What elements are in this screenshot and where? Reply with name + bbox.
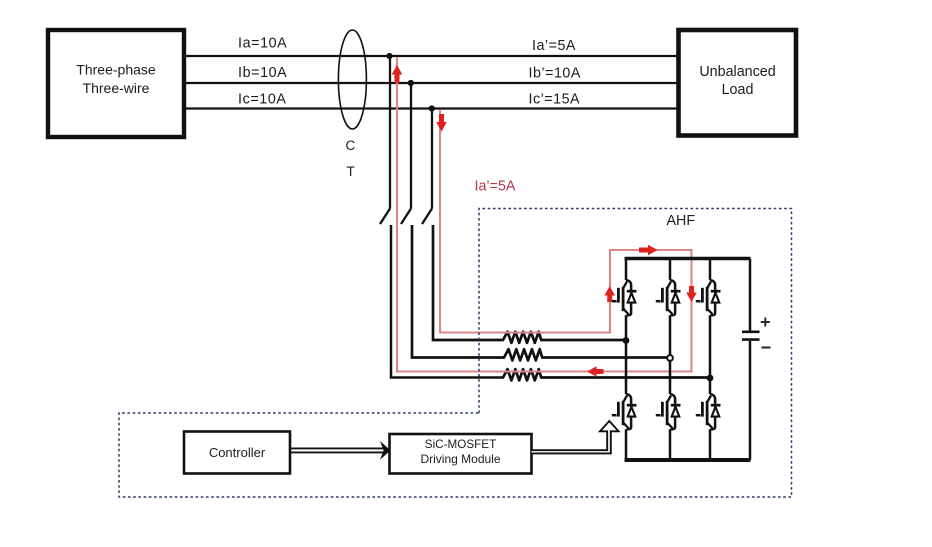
- node leg1 midpoint: [623, 337, 630, 344]
- wire: phase a tap drop: [389, 56, 391, 209]
- dc bottom bus: [625, 458, 751, 462]
- red arrow down right leg: [686, 286, 697, 302]
- wire capacitor to bottom bus: [749, 341, 752, 460]
- IGBT Q3 (top leg3): [696, 280, 721, 315]
- red compensation path: [397, 57, 692, 372]
- leg2 lower: [669, 429, 672, 460]
- switch blade phase b: [401, 209, 411, 225]
- svg-text:SiC-MOSFET: SiC-MOSFET: [425, 438, 496, 451]
- red arrow down from wire c: [436, 114, 447, 132]
- inductor Lc: [503, 332, 541, 343]
- wire: phase b to filter: [412, 225, 504, 358]
- load box: Unbalanced Load: [679, 30, 797, 136]
- source box: Three-phase Three-wire: [48, 30, 184, 137]
- red arrow up into wire a: [392, 65, 403, 83]
- label -: [762, 347, 771, 349]
- IGBT Q2 (top leg2): [656, 280, 681, 315]
- node leg2 midpoint (open): [667, 355, 673, 361]
- switch blade phase a: [380, 209, 390, 225]
- svg-text:Ic=10A: Ic=10A: [238, 92, 287, 108]
- svg-text:AHF: AHF: [667, 213, 696, 229]
- svg-text:Three-wire: Three-wire: [83, 80, 150, 96]
- dc link wire to capacitor: [749, 259, 752, 331]
- svg-text:Ic’=15A: Ic’=15A: [529, 92, 581, 108]
- svg-text:Controller: Controller: [209, 445, 266, 460]
- leg1 lower: [625, 429, 628, 460]
- switch blade phase c: [422, 209, 432, 225]
- wire: phase a to filter: [391, 225, 503, 378]
- leg3 middle: [709, 315, 712, 394]
- svg-text:Unbalanced: Unbalanced: [699, 64, 775, 80]
- svg-text:C: C: [346, 138, 356, 153]
- leg3 upper: [709, 259, 712, 281]
- node on wire c: [429, 105, 435, 111]
- wire: Lb to leg2 midpoint: [542, 356, 670, 359]
- capacitor C1: [742, 332, 760, 340]
- wire: phase c to filter: [433, 225, 503, 340]
- node on wire b: [408, 80, 414, 86]
- red arrow up left leg: [604, 286, 615, 302]
- svg-text:Ib’=10A: Ib’=10A: [529, 66, 581, 82]
- svg-text:Driving Module: Driving Module: [420, 452, 500, 466]
- IGBT Q1 (top leg1): [612, 280, 637, 315]
- leg3 lower: [709, 429, 712, 460]
- wire: phase b tap drop: [410, 83, 412, 209]
- inductor Lb: [504, 349, 542, 360]
- wire: La to leg3 midpoint: [541, 376, 710, 379]
- node on wire a: [386, 53, 392, 59]
- CT ellipse: [338, 30, 366, 129]
- double-line arrow controller to module: [290, 441, 391, 460]
- red arrow left bottom row: [587, 366, 604, 377]
- red arrow right top bus: [639, 245, 658, 256]
- wire: phase c tap drop: [431, 109, 433, 209]
- label +: [761, 318, 770, 327]
- leg2 middle: [669, 315, 672, 394]
- leg2 upper: [669, 259, 672, 281]
- wire phase b: [186, 82, 677, 84]
- wire phase c: [186, 107, 677, 109]
- svg-text:Ia’=5A: Ia’=5A: [532, 38, 576, 54]
- svg-text:Three-phase: Three-phase: [76, 61, 156, 77]
- IGBT Q6 (bottom leg3): [696, 394, 721, 429]
- svg-text:Ia=10A: Ia=10A: [238, 36, 287, 52]
- wire phase a: [186, 55, 677, 57]
- IGBT Q4 (bottom leg1): [612, 394, 637, 429]
- driving module box: [390, 434, 532, 474]
- leg1 upper: [625, 259, 628, 281]
- node leg3 midpoint: [707, 375, 714, 382]
- svg-text:Load: Load: [722, 82, 754, 98]
- svg-text:Ib=10A: Ib=10A: [238, 65, 287, 81]
- leg1 middle: [625, 315, 628, 394]
- svg-text:Ia’=5A: Ia’=5A: [475, 179, 516, 195]
- controller box: [184, 432, 290, 474]
- inductor La: [503, 369, 541, 380]
- wire: Lc to leg1 midpoint: [541, 339, 626, 342]
- svg-text:T: T: [347, 164, 355, 179]
- AHF dashed boundary: [119, 209, 792, 498]
- IGBT Q5 (bottom leg2): [656, 394, 681, 429]
- hollow arrow link module to bridge gates: [532, 421, 619, 453]
- dc top bus: [625, 257, 751, 261]
